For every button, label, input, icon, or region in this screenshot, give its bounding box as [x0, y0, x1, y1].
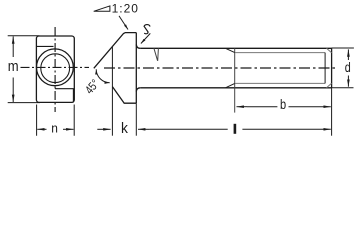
thread boundary line — [234, 48, 236, 112]
taper head outline top — [94, 33, 137, 69]
svg-text:1:20: 1:20 — [112, 2, 139, 16]
chamfer line top — [36, 45, 53, 47]
dimension k: dimension line with outside arrows — [97, 128, 110, 130]
dimension l line (arrow left at 137, continues right) — [138, 128, 150, 130]
end face — [331, 48, 333, 88]
end chamfer line — [324, 53, 326, 84]
leader r — [141, 33, 150, 43]
outer circle — [37, 49, 74, 86]
centerline horizontal — [21, 66, 90, 68]
thread root bottom — [235, 82, 325, 84]
bottom outline slant — [112, 87, 136, 104]
shank top line — [140, 47, 332, 49]
shank bottom line — [140, 87, 332, 89]
svg-text:k: k — [121, 121, 129, 138]
fillet top r — [136, 44, 140, 48]
thread root top — [235, 52, 325, 54]
label l — [234, 124, 237, 134]
V mark taper end — [154, 48, 159, 61]
inner circle — [41, 54, 70, 83]
dimension d line — [347, 49, 349, 60]
dimension b — [237, 106, 248, 108]
neck vertical line (taper start plane) — [111, 47, 113, 136]
centerline horizontal axis — [104, 67, 337, 69]
dimension m: dimension line — [12, 36, 14, 57]
square head outline — [36, 36, 74, 102]
svg-text:m: m — [8, 58, 19, 74]
end chamfer corners — [327, 48, 332, 88]
dimension d extension lines — [332, 48, 354, 88]
label r (script glyph) — [144, 25, 150, 34]
taper symbol 1:20 — [94, 6, 110, 11]
45 degree arc — [96, 69, 110, 82]
dimension n: extension lines — [37, 105, 75, 136]
l/b right extension line (end face extended) — [331, 89, 333, 136]
k/l shared extension line — [135, 103, 137, 136]
thread runout top — [226, 48, 235, 52]
centerline vertical — [54, 27, 56, 112]
chamfer line bottom — [55, 89, 73, 103]
svg-text:n: n — [51, 121, 58, 136]
head right face vertical — [135, 33, 137, 104]
leader 1:20 — [119, 16, 128, 30]
svg-text:45°: 45° — [83, 77, 102, 97]
dimension m: extension lines — [8, 36, 40, 103]
svg-text:b: b — [280, 97, 286, 112]
dimension n: dimension line — [37, 128, 46, 130]
thread runout bottom — [226, 83, 235, 87]
svg-text:d: d — [345, 60, 351, 75]
fillet bottom — [136, 88, 140, 92]
